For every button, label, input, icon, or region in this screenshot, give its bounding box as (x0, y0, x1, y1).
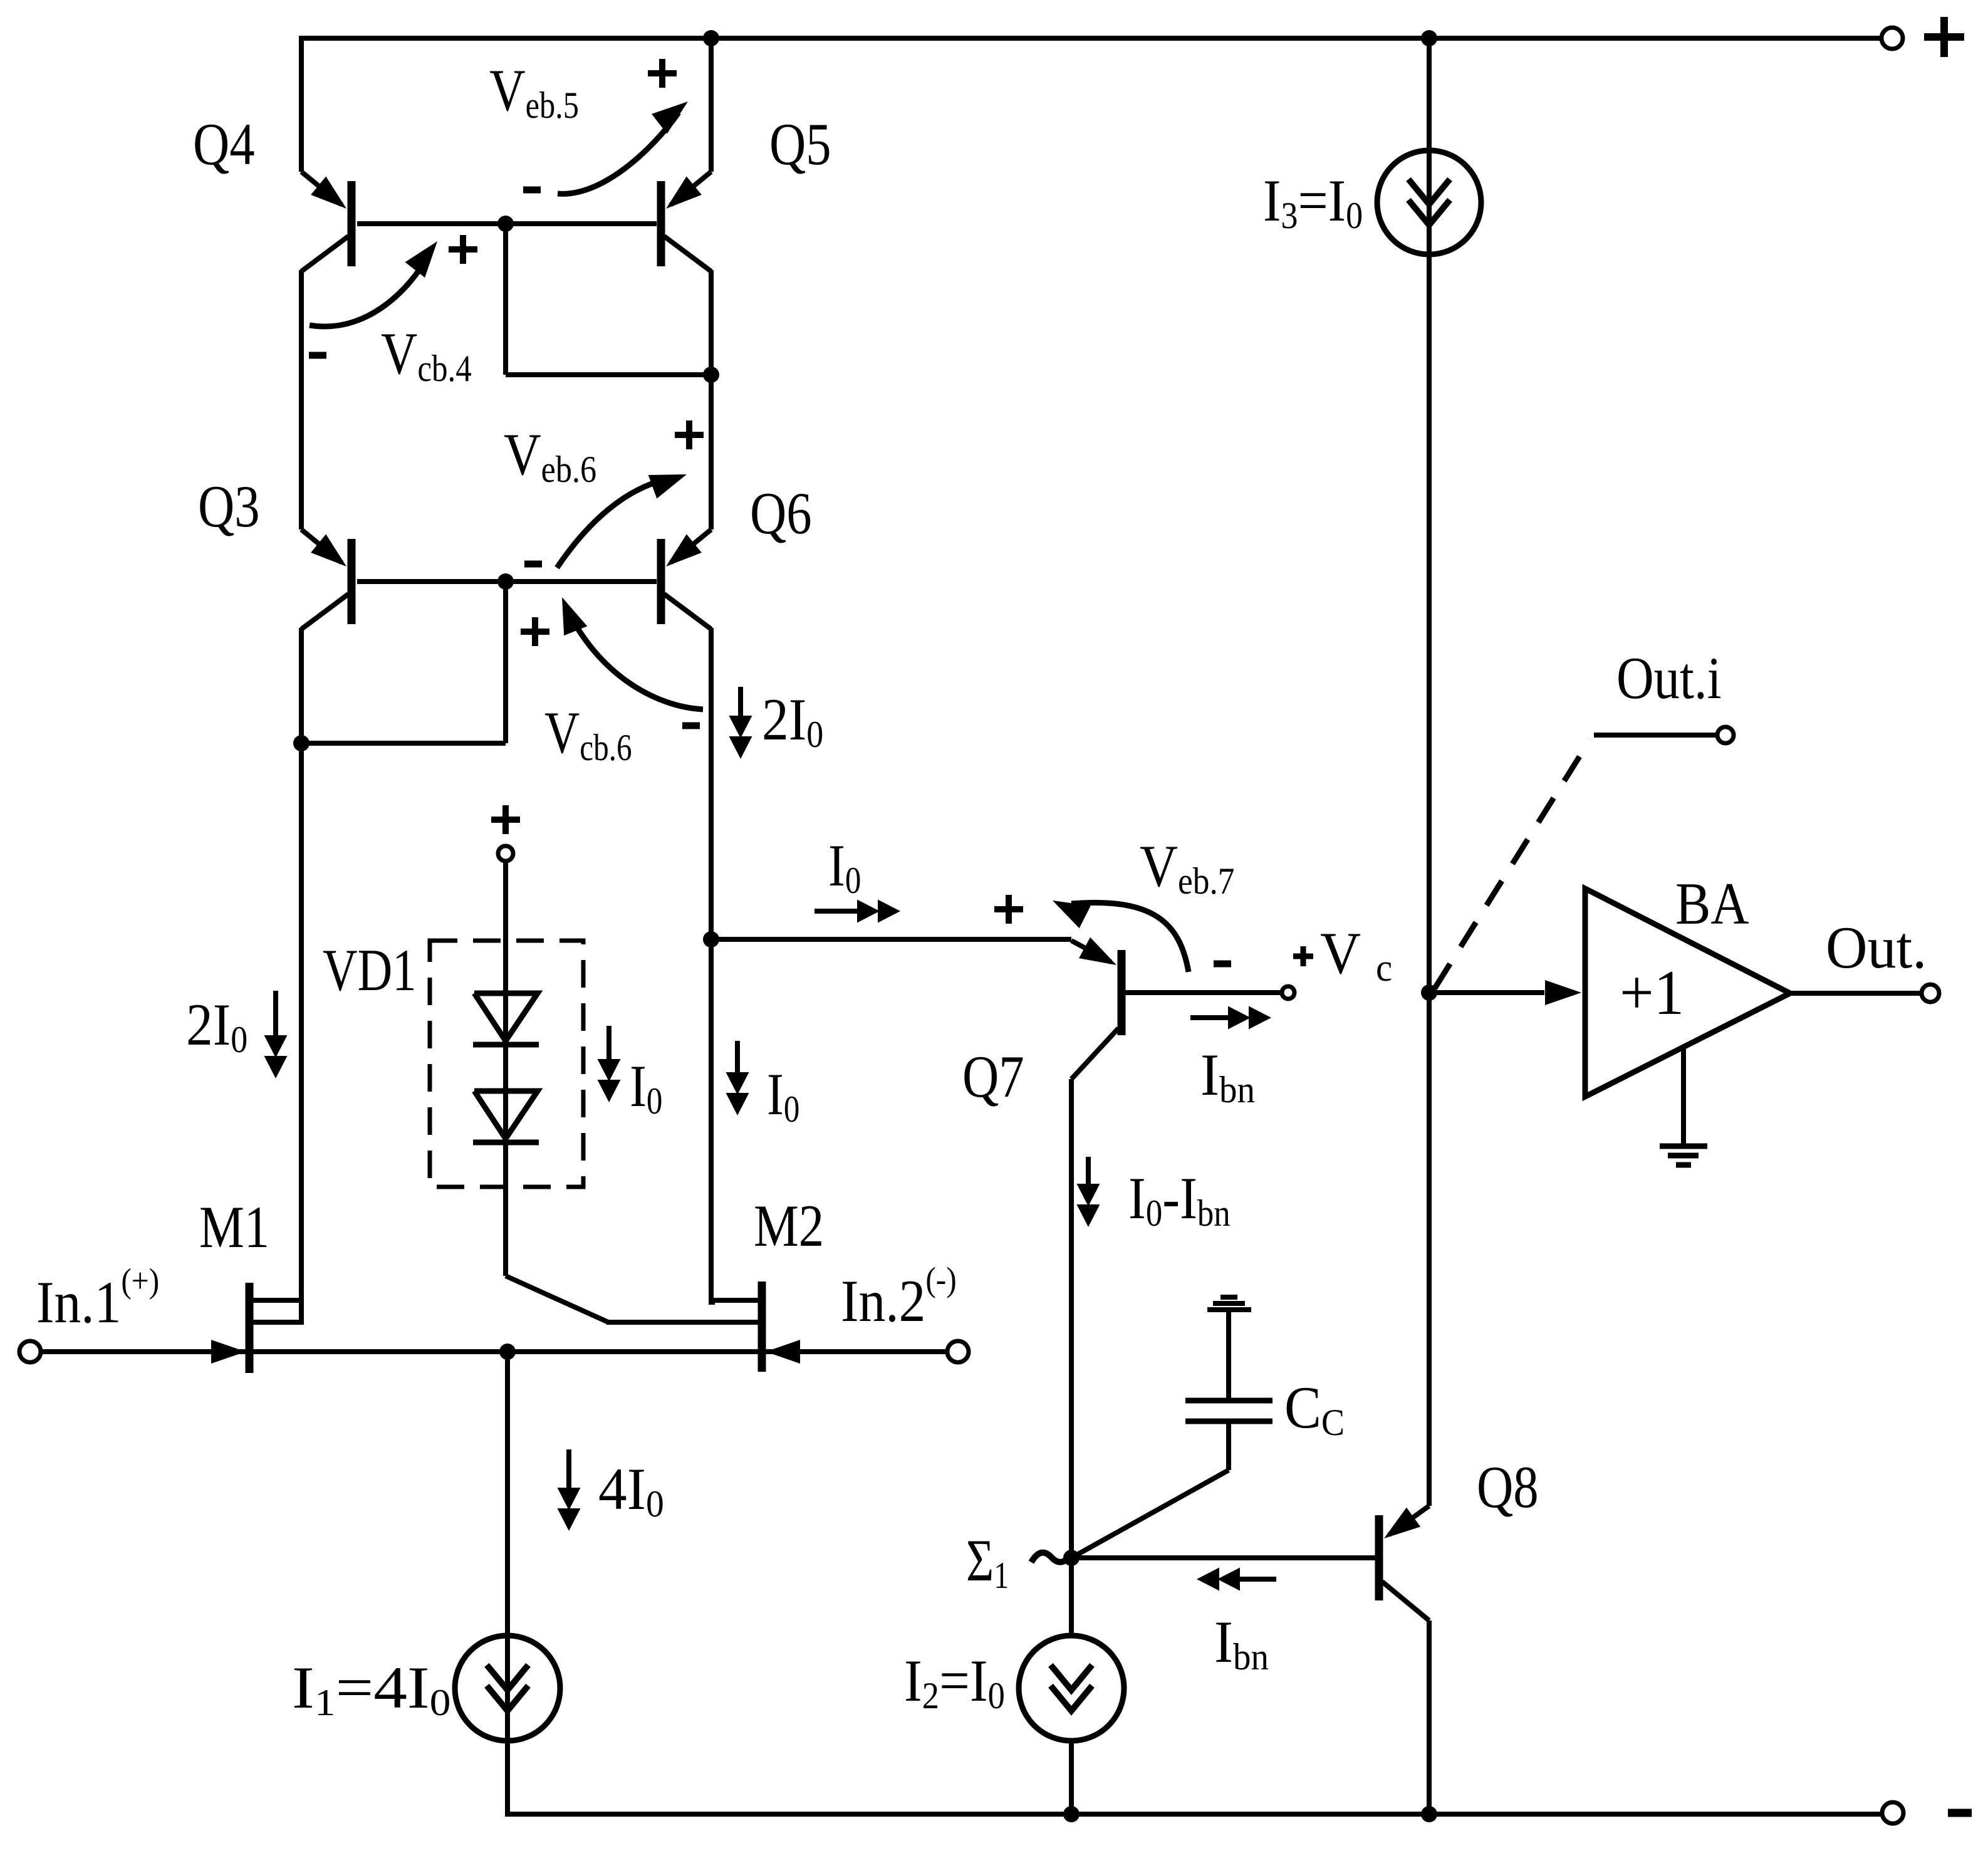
terminal: In.2 (947, 1341, 969, 1362)
svg-text:BA: BA (1675, 872, 1749, 937)
mosfet M2 channel taps (712, 1298, 758, 1303)
label: I0-Ibn (1128, 1166, 1231, 1234)
wire: tail line to M2 gate (507, 1349, 758, 1354)
svg-text:Out.: Out. (1826, 916, 1927, 981)
svg-text:Q4: Q4 (193, 112, 255, 178)
annotation: - of Vcb.6 (682, 723, 700, 729)
label: Q5 (769, 112, 831, 178)
wire: Q3/Q6 base line (357, 579, 657, 584)
terminal: + supply (1881, 28, 1903, 49)
node: Q3/Q6 base junction (497, 573, 514, 590)
label: I0 (into Q7) (828, 833, 861, 902)
mosfet M1 channel taps (252, 1298, 301, 1303)
transistor Q3 (PNP, emitter up) (301, 530, 351, 629)
arrow: I0 current (VD1 branch) (606, 1026, 611, 1065)
node: M2 drain / Q7 feed junction (703, 931, 719, 947)
label: M2 (754, 1193, 824, 1260)
label: - (bottom-right supply polarity) (1948, 1809, 1972, 1817)
svg-text:M1: M1 (199, 1194, 269, 1261)
arrow: into BA buffer (1545, 980, 1581, 1005)
transistor Q5 (PNP, emitter up, mirrored) (661, 172, 711, 271)
arrow: Ibn current toward S1 (1232, 1577, 1276, 1582)
label: +Vc (1293, 954, 1313, 959)
label: Ibn (to S1) (1214, 1609, 1269, 1678)
label: BA (1675, 872, 1749, 937)
arrow: 4I0 tail current (566, 1449, 571, 1493)
label: Veb.7 (1140, 834, 1234, 902)
svg-text:Q7: Q7 (962, 1044, 1024, 1110)
svg-text:Q6: Q6 (750, 481, 812, 547)
wire: Cc to S1 (1226, 1421, 1231, 1470)
label: I0 (VD1 branch) (630, 1053, 662, 1122)
diode VD1b (bottom) (474, 1091, 538, 1139)
box: VD1 dashed outline (430, 941, 583, 1187)
label: I2=I0 (904, 1647, 1005, 1716)
label: M1 (199, 1194, 269, 1261)
wire: Q5 collector down to Q6 emitter (709, 270, 714, 530)
annotation: - of Veb.6 (524, 561, 542, 568)
wire: negative rail (bottom) (505, 1812, 1881, 1817)
wire: VD1 bottom diagonal to M2 source (506, 1276, 608, 1322)
label: Q4 (193, 112, 255, 178)
svg-text:V: V (1320, 921, 1361, 987)
label: Veb.6 (504, 422, 596, 491)
node: top rail / I3 column junction (1421, 30, 1437, 46)
wire: Q7 collector down to node S1 (1069, 1079, 1074, 1636)
wire: I3 column from top rail (1427, 38, 1432, 1506)
svg-text:VD1: VD1 (323, 937, 417, 1003)
label: VD1 (323, 937, 417, 1003)
label: In.1(+) (36, 1262, 159, 1335)
node: top rail / Q5 emitter column junction (703, 30, 719, 46)
wire: Q3 collector down to diode-link node (299, 628, 304, 746)
arrow: I0 current (M2 drain) (735, 1041, 740, 1078)
wire: Out.i stub (1594, 733, 1717, 738)
label: Q3 (198, 474, 260, 540)
wire: S1 down to I2 (1069, 1558, 1074, 1636)
wire: link node to base (Q3 diode connection) (301, 741, 506, 746)
arrow: Veb.5 curved arrow (558, 113, 679, 194)
wire: Q3 collector down to M1 drain (299, 743, 304, 1325)
terminal: In.1 (19, 1341, 41, 1362)
arrow: Veb.7 curved arrow (1071, 902, 1189, 972)
wire: base link to Q5 collector (506, 372, 711, 377)
wire: I2 to negative rail (1069, 1741, 1074, 1814)
arrow: 2I0 current arrow (M1 drain) (273, 991, 278, 1041)
annotation: + of Veb.5 (648, 70, 677, 76)
label: + (top-right supply polarity) (1924, 33, 1964, 41)
op-amp BA buffer (+1) (1585, 889, 1790, 1097)
wire: Q6 collector down to M2 drain (709, 628, 714, 1305)
label: Out. (1826, 916, 1927, 981)
label: +1 (BA gain) (1620, 957, 1684, 1028)
label: Cc (1284, 1374, 1345, 1443)
annotation: + of Vcb.4 (449, 246, 477, 253)
svg-text:Q5: Q5 (769, 112, 831, 178)
terminal: +Vc (1282, 986, 1294, 999)
arrow: I0-Ibn current (1086, 1157, 1091, 1189)
wire: ground stem to Cc (1226, 1310, 1231, 1398)
node: Q4/Q5 base junction (497, 216, 514, 232)
terminal: Out. (1922, 984, 1939, 1002)
label: Q7 (962, 1044, 1024, 1110)
label: I1=4I0 (292, 1655, 451, 1723)
label: Q8 (1477, 1454, 1539, 1521)
arrow: Vcb.6 curved arrow (567, 609, 703, 709)
annotation: + above VD1 terminal (491, 817, 520, 823)
node: Q5 collector diode link (703, 367, 719, 383)
wire: top rail down to Q4 emitter (299, 36, 304, 172)
arrow: gate arrow into M2 (766, 1340, 800, 1364)
ground: BA reference (1681, 1045, 1686, 1144)
mosfet M1 gate bar (246, 1283, 254, 1373)
diode VD1a (top) (474, 993, 538, 1041)
transistor Q4 (PNP, emitter up) (301, 172, 351, 271)
label: 4I0 (598, 1456, 664, 1525)
node: BA input junction (1421, 984, 1437, 1001)
node: Q3 collector / link junction (293, 735, 310, 751)
label: In.2(-) (841, 1261, 957, 1334)
transistor Q8 (PNP, mirrored) (1379, 1506, 1429, 1621)
svg-text:Out.i: Out.i (1616, 646, 1722, 712)
annotation: + of Veb.7 (994, 906, 1023, 912)
label: Q6 (750, 481, 812, 547)
annotation: S1 tilde (1031, 1553, 1071, 1562)
label: S1 (sigma-1) (966, 1527, 1009, 1596)
terminal: - supply (1882, 1802, 1903, 1824)
current source I3 (1377, 150, 1481, 254)
wire: dashed link to Out.i (1435, 739, 1590, 988)
arrow: Ibn base current out (1190, 1015, 1236, 1020)
node: Q8 / rail junction (1421, 1806, 1437, 1822)
ground: above Cc (1220, 1295, 1237, 1300)
svg-text:M2: M2 (754, 1193, 824, 1260)
wire: S1 to Q8 base (1071, 1555, 1375, 1560)
annotation: - of Vcb.4 (309, 352, 326, 359)
label: Ibn (Q7 base) (1200, 1042, 1255, 1110)
label: I3=I0 (1263, 167, 1363, 237)
wire: Q4 collector down to Q3 emitter (299, 270, 304, 530)
arrow: Veb.6 curved arrow (557, 479, 666, 568)
svg-text:c: c (1376, 947, 1392, 990)
label: 2I0 at Q3 collector (186, 991, 247, 1061)
node: I2 / rail junction (1063, 1806, 1080, 1822)
annotation: + of Veb.6 (675, 432, 704, 438)
wire: M2 drain to Q7 emitter (711, 937, 1071, 942)
terminal: Out.i (1717, 727, 1734, 743)
wire: In.2 gate line (766, 1349, 947, 1354)
transistor Q7 (PNP) (1071, 937, 1122, 1079)
label: I0 (M2 drain) (767, 1062, 799, 1130)
wire: Q4/Q5 base line (357, 221, 657, 226)
arrow: 2I0 current arrow (Q6 collector) (738, 687, 743, 721)
current source I1 (455, 1636, 560, 1741)
capacitor Cc (1185, 1398, 1272, 1404)
arrow: gate arrow into M1 (211, 1340, 246, 1364)
wire: VD1 anode feed (503, 861, 508, 1276)
wire: In.1 gate line (41, 1349, 507, 1354)
terminal: VD1 + input (498, 846, 513, 861)
arrow: Vcb.4 curved arrow (310, 251, 431, 326)
label: Vcb.6 (544, 700, 632, 768)
wire: Q8 collector to negative rail (1427, 1621, 1432, 1814)
wire: tail down to I1 (505, 1352, 510, 1814)
label: Veb.5 (489, 58, 579, 126)
node: tail junction (499, 1344, 516, 1360)
annotation: + of Vcb.6 (521, 629, 549, 635)
wire: base junction down (503, 224, 508, 375)
wire: BA input line (1429, 990, 1544, 995)
transistor Q6 (PNP, emitter up, mirrored) (661, 530, 711, 629)
svg-text:Q8: Q8 (1477, 1454, 1539, 1521)
wire: Q7 base to Vc terminal (1125, 990, 1282, 995)
svg-text:+1: +1 (1620, 957, 1684, 1028)
label: Out.i (1616, 646, 1722, 712)
current source I2 (1019, 1636, 1124, 1741)
node: S1 summing node (1063, 1550, 1080, 1566)
arrow: I0 current into Q7 (814, 909, 865, 914)
svg-text:Q3: Q3 (198, 474, 260, 540)
wire: positive supply rail (top) (301, 36, 1880, 41)
wire: top rail down to Q5 emitter (709, 36, 714, 172)
label: Vcb.4 (381, 321, 472, 390)
annotation: - of Veb.5 (523, 187, 541, 194)
wire: BA output (1790, 991, 1921, 996)
mosfet M2 gate bar (758, 1281, 766, 1372)
annotation: - of Veb.7 (1214, 961, 1231, 968)
label: 2I0 at Q6 collector (762, 686, 823, 756)
